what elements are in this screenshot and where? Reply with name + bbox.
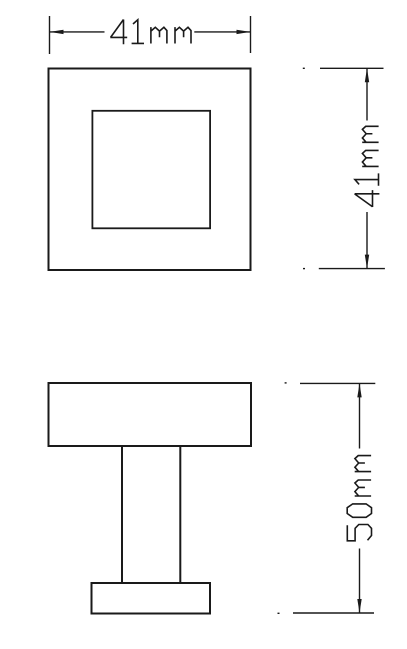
dimension D2 : bottom arrowhead [365,255,369,269]
dimension D2 : bottom extension gap dot [303,268,305,270]
dimension D3 : bottom arrowhead [357,599,361,613]
dimension D2 : bottom extension line [319,268,385,270]
dimension D2 : dimension line lower segment [366,212,368,269]
top view : outer square of knob face [49,69,251,271]
dimension D2 : dimension line upper segment [366,68,368,120]
dimension D2 : top arrowhead [365,68,369,82]
dimension D1 : right arrowhead [237,30,251,34]
dimension D3 : dimension line upper segment [359,383,361,448]
dimension D1 (41mm horizontal, top) : left extension line [49,16,51,54]
side view : base flange [92,583,211,614]
dimension D2 : text 41mm rotated [355,126,380,207]
dimension D1 : dimension line left segment [50,31,105,33]
dimension D1 : text 41mm [110,20,191,45]
top view : inner square of knob face [92,111,210,229]
dimension D3 : top arrowhead [357,383,361,397]
dimension D3 : bottom extension gap dot [278,612,280,614]
side view : knob head plate [49,383,252,446]
dimension D2 (41mm vertical, right of top view) : top extension line [320,67,384,69]
side view : stem right edge [179,446,181,583]
dimension D3 (50mm vertical, right of side view) : top extension line [300,382,375,384]
dimension D3 : bottom extension line [293,612,374,614]
dimension D3 : top extension gap dot [285,382,287,384]
dimension D1 : left arrowhead [50,30,64,34]
dimension D1 : dimension line right segment [194,31,250,33]
dimension D2 : top extension gap dot [303,67,305,69]
dimension D3 : dimension line lower segment [359,549,361,614]
dimension D1 : right extension line [250,16,252,53]
side view : stem left edge [121,446,123,583]
dimension D3 : text 50mm rotated [347,456,371,541]
